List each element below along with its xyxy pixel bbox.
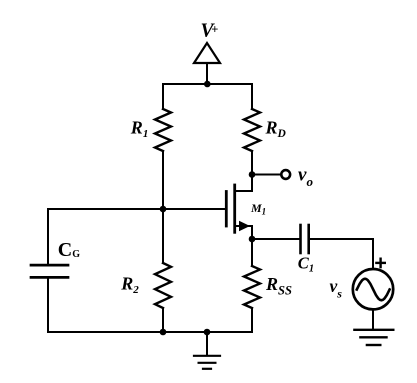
svg-text:R1: R1 (130, 118, 149, 140)
svg-text:CG: CG (58, 239, 80, 261)
svg-text:+: + (211, 22, 218, 36)
svg-text:R2: R2 (120, 273, 139, 295)
svg-text:RD: RD (265, 118, 287, 140)
svg-text:vs: vs (330, 276, 343, 301)
svg-text:M1: M1 (250, 201, 266, 217)
svg-text:vo: vo (298, 164, 313, 189)
svg-text:RSS: RSS (265, 274, 292, 298)
svg-text:C1: C1 (298, 254, 314, 275)
